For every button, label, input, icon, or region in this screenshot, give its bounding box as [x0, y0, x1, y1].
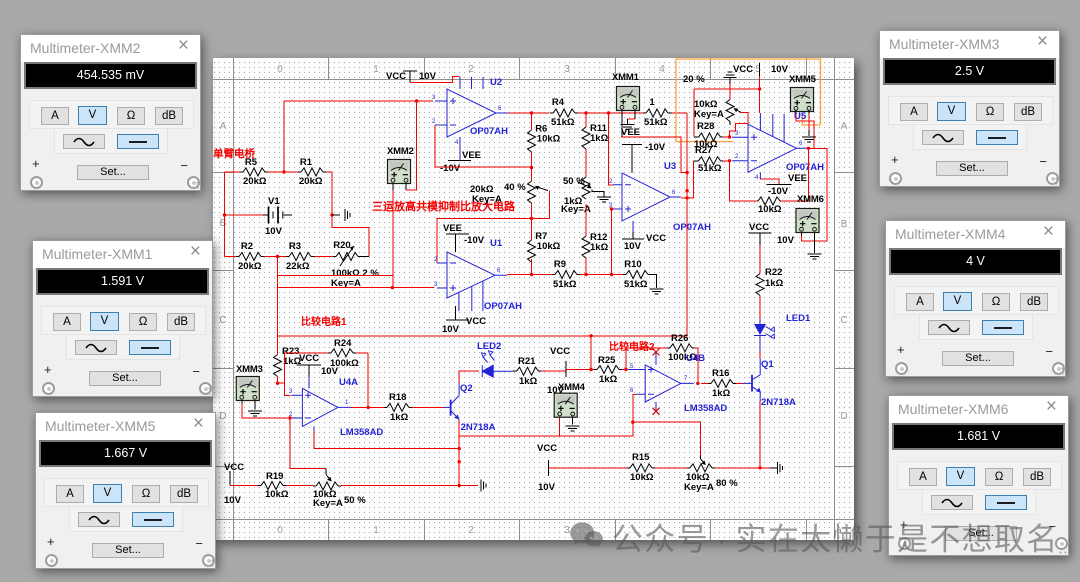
wire XMM5 - to ground: [808, 114, 810, 136]
wire bridge output column: [278, 257, 435, 336]
svg-text:B: B: [220, 218, 227, 229]
svg-text:R2: R2: [241, 241, 253, 252]
power VCC for U3: [622, 232, 666, 252]
svg-text:VCC: VCC: [537, 443, 557, 454]
resistor R11: [582, 113, 609, 177]
wire battery node to R20 right: [332, 215, 369, 257]
ground comp1 rail end: [481, 480, 486, 492]
node battery right: [330, 213, 333, 216]
power VCC top center: [733, 63, 789, 76]
wire R1 right down to battery node: [326, 172, 332, 215]
svg-text:1kΩ: 1kΩ: [712, 388, 731, 399]
wire XMM3 + to U4A -in: [242, 401, 288, 419]
node U4B out: [696, 382, 699, 385]
svg-text:R21: R21: [518, 356, 536, 367]
svg-text:VCC: VCC: [550, 346, 570, 357]
node U2 feedback: [530, 166, 533, 169]
svg-text:R4: R4: [552, 97, 565, 108]
svg-text:VCC: VCC: [646, 233, 666, 244]
resistor R23: [274, 336, 302, 377]
selection box (orange): [676, 59, 821, 142]
svg-text:VCC: VCC: [224, 462, 244, 473]
svg-text:单臂电桥: 单臂电桥: [213, 147, 255, 160]
svg-text:10kΩ: 10kΩ: [537, 134, 561, 145]
power VEE for U2: [440, 150, 481, 174]
wire XMM6 +: [802, 233, 828, 242]
Multimeter-XMM1 window: [32, 240, 213, 397]
op-amp U5: [732, 113, 824, 181]
svg-text:51kΩ: 51kΩ: [553, 279, 577, 290]
instrument icon XMM1: [612, 72, 640, 137]
wire XMM4 + link: [459, 414, 633, 462]
svg-text:XMM4: XMM4: [558, 382, 586, 393]
svg-text:10kΩ: 10kΩ: [537, 241, 561, 252]
node U3 +in tap bottom: [610, 273, 613, 276]
svg-text:R15: R15: [632, 452, 650, 463]
node U3 out c: [685, 196, 688, 199]
wire U4A -in to pot wiper: [290, 418, 326, 469]
node U2 out: [530, 111, 533, 114]
node rail R25 feed: [589, 334, 592, 337]
node R2-R3: [276, 255, 279, 258]
svg-text:4: 4: [659, 64, 665, 75]
svg-text:2: 2: [432, 119, 436, 125]
svg-text:R9: R9: [554, 259, 566, 270]
power VEE for U1: [443, 223, 485, 252]
Multimeter-XMM6 window: [888, 395, 1069, 556]
svg-text:R16: R16: [712, 368, 729, 379]
wire U3 +in column: [612, 209, 614, 275]
instrument icon XMM2: [387, 146, 414, 190]
node U3 out: [685, 171, 688, 174]
ground below XMM6: [808, 236, 822, 260]
op-amp U2: [432, 77, 508, 161]
op-amp U1: [434, 238, 522, 312]
resistor R19: [258, 471, 289, 500]
resistor R16: [701, 368, 742, 399]
node U5 -in: [728, 159, 731, 162]
svg-text:6: 6: [497, 268, 501, 274]
svg-text:R28: R28: [697, 121, 714, 132]
resistor R24: [328, 338, 368, 369]
wire comp1 rail: [230, 485, 478, 487]
svg-text:1: 1: [373, 525, 379, 536]
svg-text:LED2: LED2: [477, 341, 501, 352]
svg-text:10V: 10V: [538, 482, 556, 493]
svg-text:20 %: 20 %: [683, 74, 705, 85]
svg-text:Key=A: Key=A: [684, 482, 714, 493]
ground right of battery: [332, 209, 350, 221]
resistor R26: [667, 333, 697, 363]
wire rail down to R25: [590, 336, 592, 370]
svg-text:3: 3: [432, 95, 436, 101]
svg-text:C: C: [840, 315, 847, 326]
svg-text:1: 1: [345, 400, 349, 406]
svg-text:-10V: -10V: [768, 186, 789, 197]
wire U3 -in column: [609, 113, 613, 185]
wire U5 feedback column: [730, 148, 809, 201]
svg-text:A: A: [841, 121, 848, 132]
svg-text:10kΩ: 10kΩ: [758, 204, 782, 215]
svg-text:LM358AD: LM358AD: [684, 403, 727, 414]
wire R28 left to U3 out: [621, 137, 687, 173]
svg-text:6: 6: [672, 190, 676, 196]
svg-text:Key=A: Key=A: [313, 498, 343, 509]
resistor R5: [240, 157, 268, 187]
node U3 out b: [685, 189, 688, 192]
LED1: [754, 313, 811, 352]
svg-text:50 %: 50 %: [563, 176, 585, 187]
svg-text:VEE: VEE: [462, 150, 481, 161]
svg-text:5: 5: [755, 64, 761, 75]
svg-text:10kΩ: 10kΩ: [265, 489, 289, 500]
svg-text:D: D: [219, 411, 226, 422]
wire R27 left to U3 out: [692, 161, 694, 198]
svg-text:20kΩ: 20kΩ: [299, 176, 323, 187]
wire 51k to R28: [672, 112, 687, 114]
wire VCC to U2 pin7: [410, 77, 460, 83]
svg-text:4: 4: [455, 140, 459, 146]
svg-text:3: 3: [289, 389, 293, 395]
resistor R27: [693, 145, 729, 174]
svg-text:XMM1: XMM1: [612, 72, 640, 83]
svg-text:U2: U2: [490, 77, 502, 88]
node -in tap: [631, 420, 634, 423]
resistor R6: [528, 113, 561, 168]
svg-text:2N718A: 2N718A: [761, 397, 796, 408]
ground top center: [724, 72, 737, 84]
schematic canvas window: [213, 58, 854, 540]
Multimeter-XMM4 window: [885, 220, 1066, 377]
wire XMM5 + to U5 out: [796, 111, 814, 149]
node VCC feed: [758, 87, 761, 90]
Multimeter-XMM2 window: [20, 34, 201, 191]
node U1 side: [530, 217, 533, 220]
node Q1 emitter rail: [758, 466, 761, 469]
wire bridge top to U2 +in: [284, 101, 433, 172]
svg-text:R10: R10: [624, 259, 641, 270]
op-amp U3: [609, 161, 711, 239]
svg-text:B: B: [841, 219, 848, 230]
svg-text:10V: 10V: [777, 235, 795, 246]
svg-text:LED1: LED1: [786, 313, 811, 324]
transistor Q2: [444, 383, 496, 433]
canvas ruler frame: [213, 58, 854, 540]
node R12 bottom: [584, 273, 587, 276]
wire VCC to R25: [566, 369, 594, 371]
svg-text:51kΩ: 51kΩ: [551, 117, 575, 128]
op-amp U4B: [628, 352, 727, 414]
ground below R10: [650, 275, 664, 295]
wire pot50 to R12: [585, 204, 587, 236]
node U5 +in: [728, 135, 731, 138]
svg-text:VEE: VEE: [621, 127, 640, 138]
svg-text:XMM5: XMM5: [789, 74, 817, 85]
svg-text:VCC: VCC: [733, 64, 753, 75]
instrument icon XMM5: [789, 74, 817, 112]
transistor Q1: [742, 352, 796, 409]
svg-text:Q1: Q1: [761, 359, 774, 370]
power VCC comp2 rail: [537, 443, 557, 493]
potentiometer 10k 20%: [683, 74, 741, 125]
svg-text:51kΩ: 51kΩ: [644, 117, 668, 128]
svg-text:A: A: [220, 121, 227, 132]
svg-text:D: D: [840, 411, 847, 422]
svg-text:-10V: -10V: [440, 163, 461, 174]
ground comp2 rail end: [760, 462, 783, 474]
svg-text:V1: V1: [268, 196, 280, 207]
LED2: [477, 341, 513, 377]
power VCC for U1: [442, 306, 486, 335]
node R11 top: [584, 111, 587, 114]
svg-text:OP07AH: OP07AH: [786, 162, 824, 173]
svg-text:Key=A: Key=A: [694, 109, 724, 120]
resistor R22: [756, 245, 784, 319]
svg-text:R26: R26: [671, 333, 688, 344]
resistor 10k U5 feedback: [757, 197, 782, 215]
watermark: [567, 519, 606, 555]
svg-text:0: 0: [277, 64, 283, 75]
svg-text:10V: 10V: [265, 226, 283, 237]
wire comparator rail (R23 top to U3 out): [278, 335, 688, 337]
power VCC comp1 rail: [224, 462, 244, 506]
node U1 out / R7: [530, 273, 533, 276]
svg-text:XMM6: XMM6: [797, 194, 824, 205]
svg-text:10V: 10V: [419, 71, 437, 82]
svg-text:比较电路2: 比较电路2: [609, 340, 655, 353]
op-amp U4A: [289, 377, 383, 438]
node U3 -in tap: [607, 111, 610, 114]
svg-text:2: 2: [468, 525, 474, 536]
resistor R1: [298, 157, 326, 187]
svg-text:R25: R25: [598, 355, 616, 366]
wire U4A power rail down: [314, 431, 459, 449]
power VCC for U2: [386, 71, 437, 82]
svg-text:R20: R20: [333, 240, 350, 251]
svg-text:20kΩ: 20kΩ: [238, 261, 262, 272]
node U4B +in: [624, 368, 627, 371]
resistor R28: [694, 121, 730, 150]
wire bridge left column: [225, 172, 264, 257]
resistor R10: [623, 259, 657, 290]
node U5 out fb: [807, 147, 810, 150]
svg-text:U1: U1: [490, 238, 503, 249]
node Q2 emitter rail: [458, 484, 461, 487]
svg-text:10V: 10V: [442, 324, 460, 335]
Multimeter-XMM3 window: [879, 30, 1060, 187]
svg-text:VCC: VCC: [299, 353, 319, 364]
ground right of pot50: [592, 190, 611, 203]
wire R9 to R10: [580, 274, 623, 276]
svg-text:OP07AH: OP07AH: [484, 301, 522, 312]
wire XMM4 - to ground: [566, 417, 580, 432]
svg-text:10kΩ: 10kΩ: [630, 472, 654, 483]
wire U2 output to node: [508, 112, 549, 114]
svg-text:VEE: VEE: [788, 173, 807, 184]
svg-text:1kΩ: 1kΩ: [390, 412, 409, 423]
wire Q2 emitter column: [458, 420, 460, 486]
wire U5 output: [802, 148, 827, 241]
svg-text:U3: U3: [664, 161, 676, 172]
svg-text:1: 1: [373, 64, 379, 75]
resistor 1 51k: [643, 97, 672, 128]
svg-text:R22: R22: [765, 267, 782, 278]
svg-text:1kΩ: 1kΩ: [590, 242, 609, 253]
ground below XMM5: [802, 137, 816, 142]
wire VCC to pot20 and U5 pin7: [694, 76, 760, 137]
power VEE for U5: [760, 173, 807, 197]
potentiometer 10k 80%: [684, 456, 738, 494]
power VCC for U4A: [296, 353, 338, 377]
svg-text:Key=A: Key=A: [472, 194, 502, 205]
svg-text:80 %: 80 %: [716, 478, 738, 489]
svg-text:U4A: U4A: [339, 377, 358, 388]
node Q2 rail joins: [458, 447, 461, 450]
svg-text:R3: R3: [289, 241, 301, 252]
resistor R3: [286, 241, 314, 272]
resistor R4: [550, 97, 578, 128]
node U4A out: [367, 406, 370, 409]
svg-text:6: 6: [498, 106, 502, 112]
resistor R7: [528, 219, 561, 275]
node R25 feed: [589, 368, 592, 371]
wire pot20 to R28 node: [730, 112, 748, 137]
svg-text:U4B: U4B: [686, 353, 705, 364]
svg-text:-10V: -10V: [464, 235, 485, 246]
potentiometer 20k 40%: [470, 168, 548, 219]
svg-text:22kΩ: 22kΩ: [286, 261, 310, 272]
svg-text:3: 3: [735, 131, 739, 137]
no-connect X top U4B: [653, 349, 660, 356]
svg-text:10V: 10V: [224, 495, 242, 506]
svg-text:1kΩ: 1kΩ: [519, 376, 538, 387]
wire U1 output row: [507, 259, 552, 275]
battery V1: [263, 196, 292, 237]
wire U4A output row: [351, 406, 384, 408]
svg-text:51kΩ: 51kΩ: [698, 163, 722, 174]
svg-text:2: 2: [609, 179, 613, 185]
wire R23 to U4A +in: [278, 377, 291, 396]
svg-text:3: 3: [434, 282, 438, 288]
instrument icon XMM4: [554, 382, 585, 417]
wire Q2 collector to LED2: [459, 371, 479, 395]
svg-text:OP07AH: OP07AH: [673, 222, 711, 233]
potentiometer 10k 50% comp1: [313, 469, 366, 509]
svg-text:R19: R19: [266, 471, 283, 482]
svg-text:R27: R27: [695, 145, 712, 156]
svg-text:20kΩ: 20kΩ: [243, 176, 267, 187]
node bridge output tap: [391, 286, 394, 289]
resistor R12: [582, 232, 609, 275]
svg-text:Q2: Q2: [460, 383, 473, 394]
svg-text:50 %: 50 %: [344, 495, 366, 506]
potentiometer 1k 50%: [561, 176, 592, 215]
power VCC mid (R21/R25): [547, 346, 570, 396]
svg-text:C: C: [219, 315, 226, 326]
wire R24 right to output: [367, 353, 369, 408]
svg-text:OP07AH: OP07AH: [470, 126, 508, 137]
wire XMM2 right terminal up: [406, 101, 417, 190]
svg-text:40 %: 40 %: [504, 182, 526, 193]
wire U2 pin2 feedback: [435, 125, 532, 167]
svg-text:-10V: -10V: [645, 142, 666, 153]
svg-text:2: 2: [468, 64, 474, 75]
svg-text:R24: R24: [334, 338, 352, 349]
wire R2 row: [225, 256, 334, 258]
no-connect X bottom U4B: [653, 408, 660, 415]
svg-text:R18: R18: [389, 392, 406, 403]
svg-text:6: 6: [630, 388, 634, 394]
svg-text:6: 6: [799, 141, 803, 147]
svg-text:10V: 10V: [771, 64, 789, 75]
resistor R2: [236, 241, 264, 272]
wire U3 out node column: [681, 113, 693, 336]
resistor R15: [627, 452, 655, 483]
svg-text:XMM3: XMM3: [236, 364, 263, 375]
node U4A -in tap: [288, 416, 291, 419]
wire R4 to XMM1 row: [578, 112, 643, 114]
wire U4B -in to pot80 wiper: [633, 394, 700, 455]
svg-text:R1: R1: [300, 157, 313, 168]
node U3 +in: [610, 207, 613, 210]
resistor R9: [552, 259, 580, 290]
svg-text:7: 7: [684, 376, 688, 382]
svg-text:1kΩ: 1kΩ: [599, 374, 618, 385]
svg-text:2: 2: [735, 154, 739, 160]
svg-text:比较电路1: 比较电路1: [301, 315, 347, 328]
node bridge left: [282, 170, 285, 173]
resistor R21: [513, 356, 566, 387]
svg-text:1kΩ: 1kΩ: [765, 278, 784, 289]
wire comp2 rail: [549, 467, 770, 469]
svg-text:1: 1: [649, 97, 655, 108]
svg-text:51kΩ: 51kΩ: [624, 279, 648, 290]
svg-text:1kΩ: 1kΩ: [590, 133, 609, 144]
svg-text:10V: 10V: [321, 366, 339, 377]
instrument icon XMM6: [796, 194, 824, 233]
wire XMM3 - to ground: [248, 404, 262, 417]
wire Q1 emitter down: [759, 401, 761, 468]
instrument icon XMM3: [236, 364, 263, 401]
svg-text:3: 3: [564, 64, 570, 75]
power VCC for R22: [749, 222, 795, 246]
svg-text:2N718A: 2N718A: [461, 422, 496, 433]
svg-text:VCC: VCC: [466, 316, 486, 327]
svg-text:XMM2: XMM2: [387, 146, 414, 157]
svg-text:LM358AD: LM358AD: [340, 427, 383, 438]
wire R5-R1: [268, 171, 298, 173]
svg-text:0: 0: [277, 525, 283, 536]
wire R24 left column: [284, 353, 328, 383]
wire R26 loop: [626, 348, 698, 384]
resistor R18: [384, 392, 444, 423]
power VEE for U3: [621, 127, 666, 172]
ground below XMM1: [620, 125, 634, 130]
node junction U2+in tap: [415, 99, 418, 102]
svg-text:VEE: VEE: [443, 223, 462, 234]
node U4A +in: [276, 382, 279, 385]
svg-text:VCC: VCC: [749, 222, 769, 233]
node battery left: [223, 213, 226, 216]
svg-text:10V: 10V: [624, 241, 642, 252]
svg-text:4: 4: [755, 175, 759, 181]
wire U1 pin2 tap: [437, 191, 550, 264]
resistor R25: [594, 355, 626, 385]
wire XMM2 left terminal down: [392, 190, 394, 288]
potentiometer R20: [331, 240, 379, 289]
svg-text:VCC: VCC: [386, 71, 406, 82]
Multimeter-XMM5 window: [35, 412, 216, 569]
